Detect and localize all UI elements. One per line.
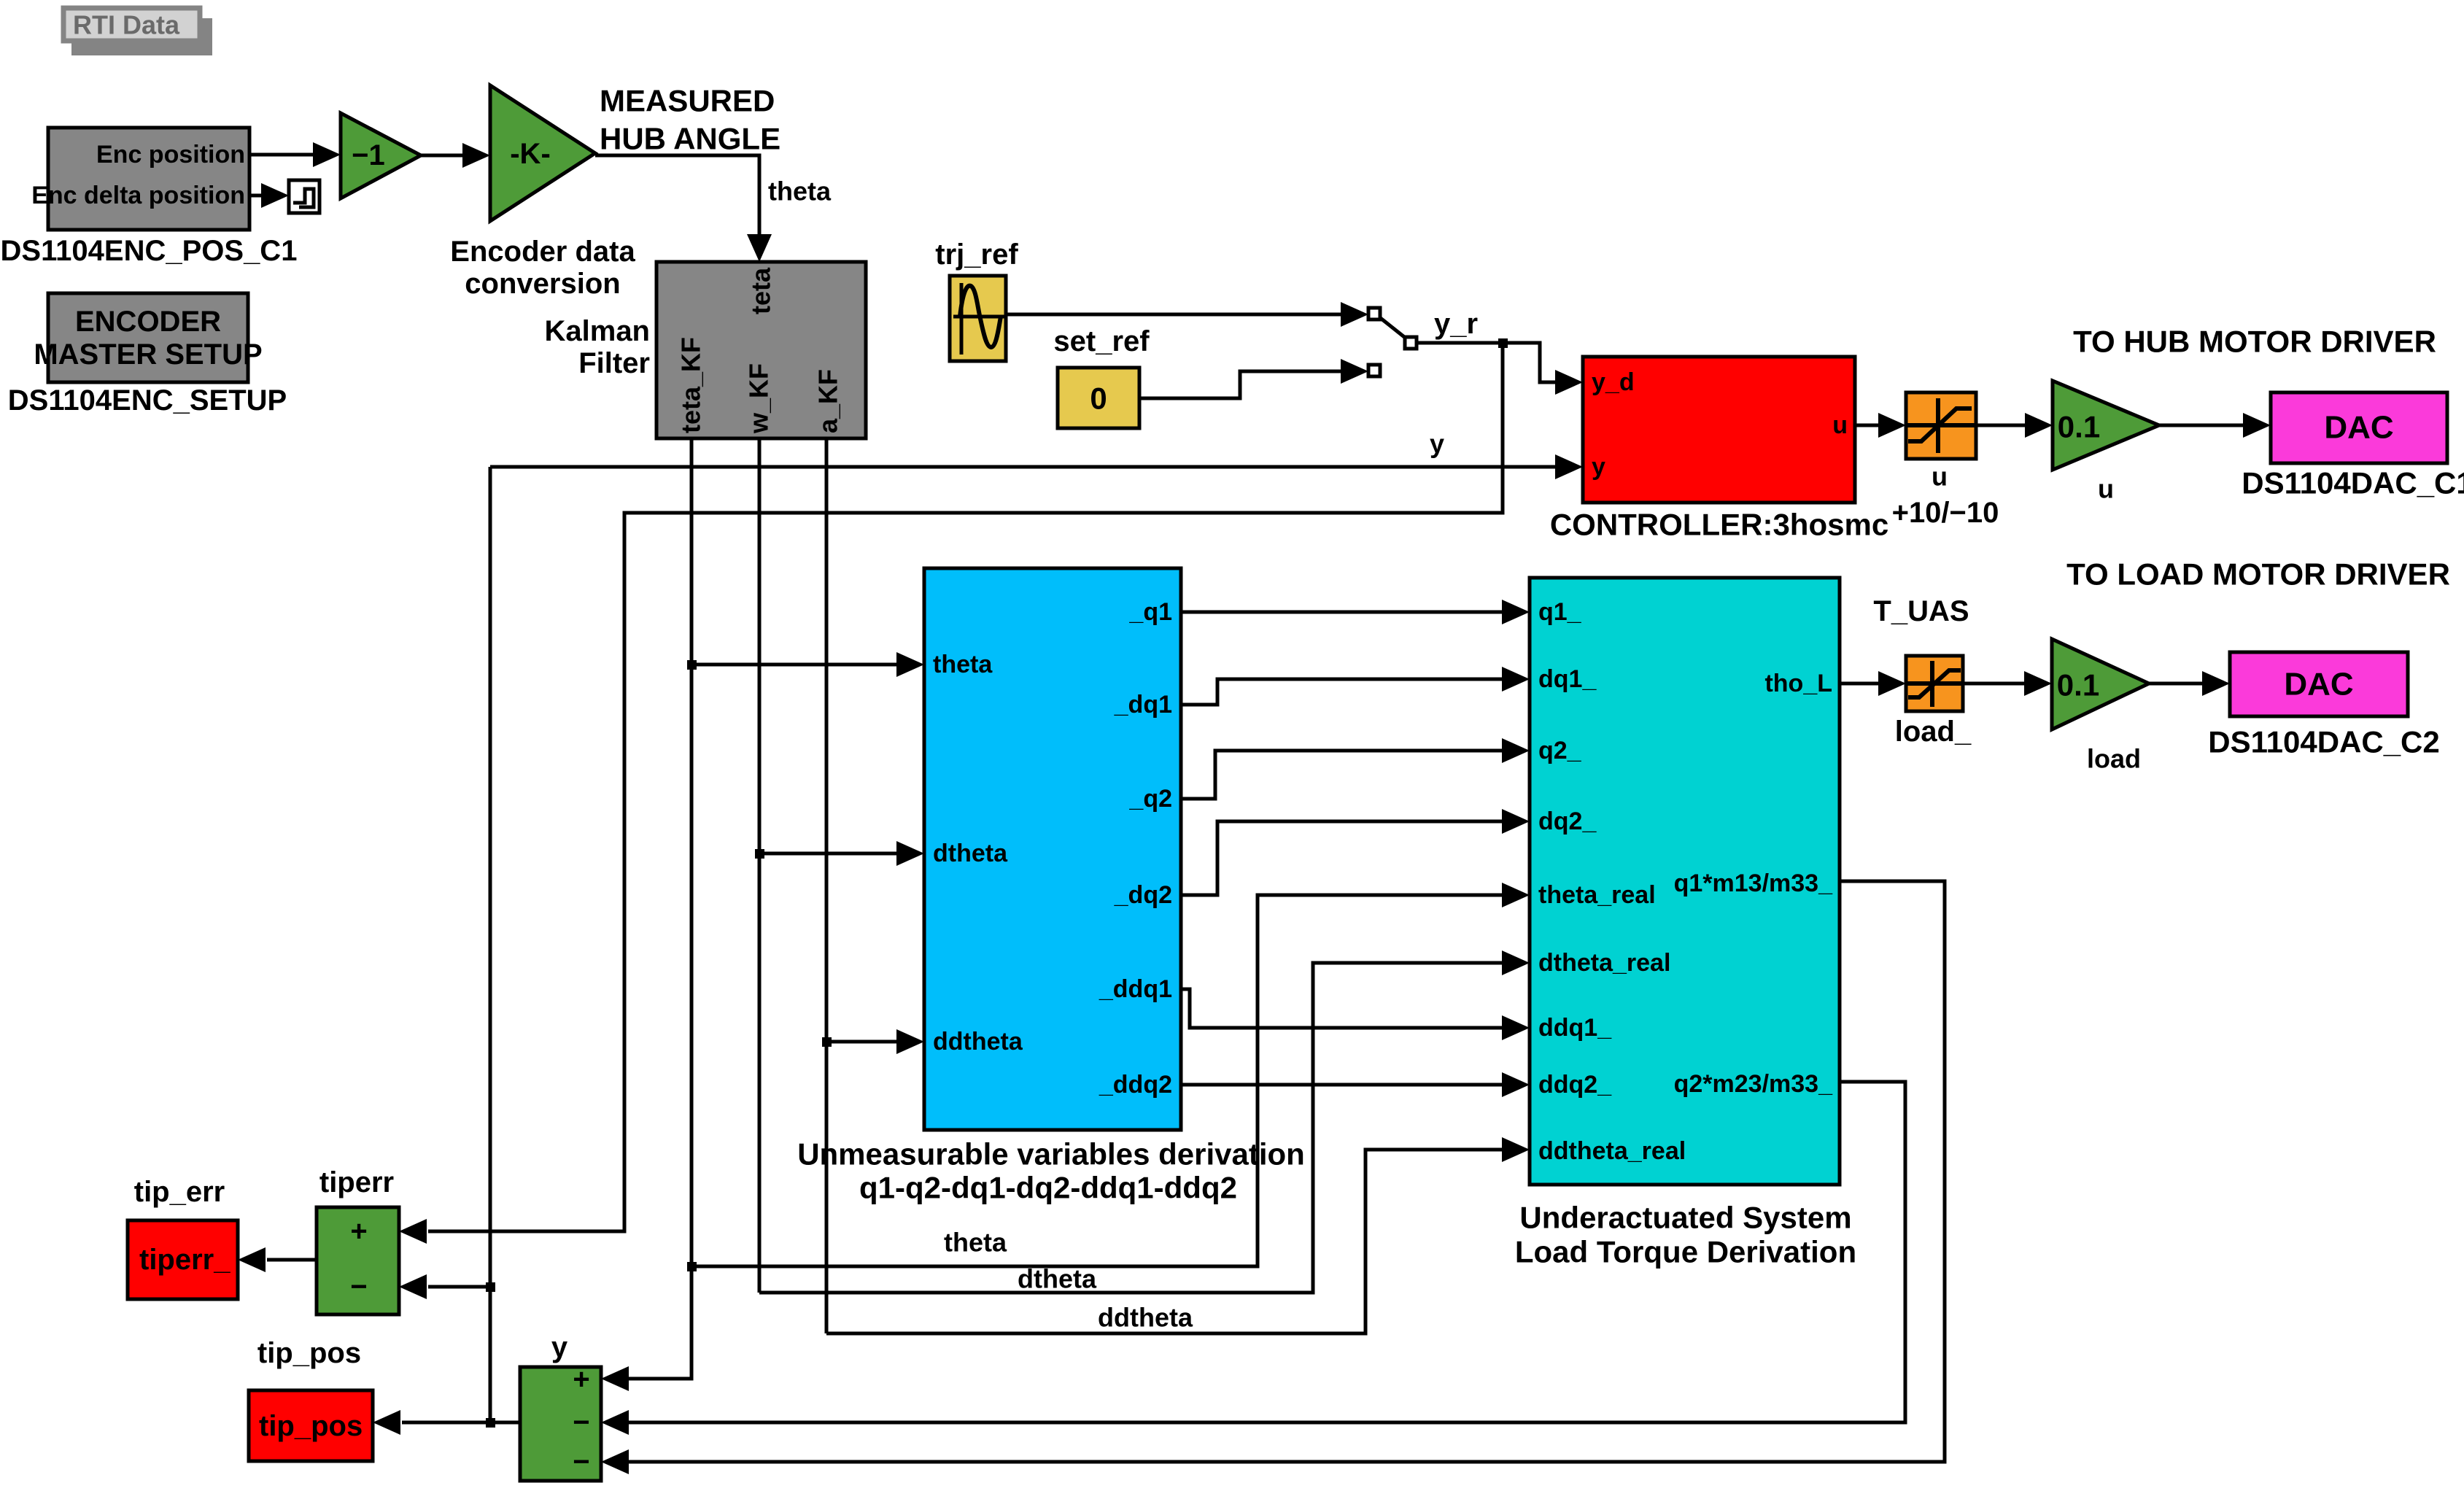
svg-text:DS1104DAC_C2: DS1104DAC_C2 [2208, 725, 2440, 759]
gain -1 [341, 113, 421, 198]
junction teta_KF to theta_real [687, 1262, 697, 1271]
gain 0.1 load [2052, 639, 2149, 774]
svg-text:_ddq1: _ddq1 [1099, 975, 1172, 1003]
svg-text:y: y [1430, 429, 1444, 459]
svg-text:y_d: y_d [1592, 368, 1635, 396]
block Underactuated System Load Torque Derivation [1515, 578, 1856, 1269]
svg-text:Load Torque Derivation: Load Torque Derivation [1515, 1235, 1856, 1269]
svg-text:TO LOAD MOTOR DRIVER: TO LOAD MOTOR DRIVER [2066, 557, 2450, 592]
block CONTROLLER:3hosmc [1550, 357, 1888, 542]
wire y_r switch to controller y_d [1417, 308, 1583, 395]
svg-text:DAC: DAC [2324, 410, 2393, 446]
svg-text:tiperr_: tiperr_ [139, 1244, 230, 1276]
svg-text:conversion: conversion [465, 268, 620, 300]
signal label MEASURED HUB ANGLE [600, 84, 780, 156]
wire q1*m13/m33_ feedback to y sum minus1 [601, 881, 1945, 1474]
wire gain -1 to gain -K- [421, 143, 490, 168]
svg-text:+: + [350, 1215, 367, 1247]
wire w_KF vertical [758, 438, 762, 1293]
block DS1104ENC_POS_C1 [1, 128, 298, 267]
svg-text:u: u [1832, 411, 1848, 439]
svg-text:DAC: DAC [2284, 667, 2353, 702]
block DAC DS1104DAC_C2 [2208, 652, 2440, 759]
svg-text:ddq2_: ddq2_ [1538, 1071, 1612, 1099]
wire _ddq2 to ddq2_ [1181, 1072, 1530, 1097]
wire trj_ref to switch [1006, 302, 1368, 327]
wire y vertical from sum [489, 467, 492, 1422]
junction teta_KF to blue theta [687, 660, 697, 670]
svg-text:y: y [1592, 453, 1605, 481]
svg-text:HUB ANGLE: HUB ANGLE [600, 122, 780, 156]
svg-text:_dq2: _dq2 [1114, 881, 1172, 909]
svg-text:tho_L: tho_L [1764, 670, 1832, 697]
svg-text:dq2_: dq2_ [1538, 808, 1597, 835]
svg-text:u: u [2098, 474, 2114, 504]
svg-text:theta: theta [768, 177, 832, 206]
outport tip_pos [249, 1337, 373, 1461]
svg-text:a_KF: a_KF [813, 369, 843, 433]
junction y at sum output [486, 1418, 495, 1428]
svg-text:DS1104ENC_POS_C1: DS1104ENC_POS_C1 [1, 235, 298, 267]
svg-text:dtheta_real: dtheta_real [1538, 949, 1670, 977]
gain 0.1 hub [2053, 381, 2159, 504]
svg-text:+: + [573, 1363, 589, 1395]
svg-text:ddtheta: ddtheta [933, 1028, 1023, 1056]
RTI Data badge [63, 8, 212, 55]
svg-text:_ddq2: _ddq2 [1099, 1071, 1172, 1099]
svg-text:load_: load_ [1895, 716, 1972, 748]
terminator T1 [289, 180, 319, 213]
saturation u +10/-10 [1892, 392, 1999, 529]
svg-text:0.1: 0.1 [2058, 410, 2100, 444]
svg-text:Encoder data: Encoder data [450, 236, 635, 268]
wire _dq2 to dq2_ [1181, 809, 1530, 895]
svg-text:y: y [551, 1331, 568, 1363]
sum tiperr [317, 1166, 399, 1314]
svg-text:Filter: Filter [578, 347, 650, 379]
junction y_r feedback [1498, 338, 1508, 348]
svg-text:dtheta: dtheta [1018, 1264, 1097, 1294]
svg-text:RTI Data: RTI Data [73, 10, 180, 40]
svg-text:teta_KF: teta_KF [676, 337, 706, 433]
svg-text:CONTROLLER:3hosmc: CONTROLLER:3hosmc [1550, 508, 1888, 542]
wire ddtheta to ddtheta_real with label [826, 1137, 1530, 1333]
wire a_KF vertical [825, 438, 829, 1333]
wire Enc position to gain -1 [249, 142, 341, 167]
svg-text:w_KF: w_KF [744, 363, 774, 434]
svg-text:y_r: y_r [1434, 308, 1478, 340]
svg-text:tip_err: tip_err [134, 1176, 225, 1208]
svg-text:ENCODER: ENCODER [75, 306, 221, 338]
svg-text:q2_: q2_ [1538, 737, 1582, 764]
svg-text:q1_: q1_ [1538, 598, 1582, 626]
wire teta_KF vertical [601, 438, 691, 1391]
wire tho_L to saturation load [1840, 671, 1906, 696]
wire theta to theta_real with label [691, 883, 1530, 1266]
wire _ddq1 to ddq1_ [1181, 989, 1530, 1040]
block DAC DS1104DAC_C1 [2242, 392, 2464, 500]
svg-text:tip_pos: tip_pos [259, 1410, 363, 1442]
wire y branch to tiperr minus [399, 1274, 490, 1299]
svg-text:_q1: _q1 [1128, 598, 1172, 626]
svg-text:−1: −1 [352, 139, 385, 171]
wire y_r feedback to tiperr plus [399, 343, 1503, 1244]
svg-text:_q2: _q2 [1128, 785, 1172, 813]
wire set_ref to switch [1139, 359, 1368, 398]
svg-text:ddq1_: ddq1_ [1538, 1014, 1612, 1042]
svg-text:TO HUB MOTOR DRIVER: TO HUB MOTOR DRIVER [2073, 325, 2436, 359]
wire w_KF branch to blue dtheta [759, 841, 924, 866]
svg-text:0.1: 0.1 [2057, 668, 2099, 702]
svg-text:set_ref: set_ref [1053, 325, 1150, 357]
svg-text:−: − [573, 1446, 589, 1478]
svg-text:theta_real: theta_real [1538, 881, 1656, 909]
block ENCODER MASTER SETUP [8, 293, 287, 417]
svg-text:Unmeasurable variables derivat: Unmeasurable variables derivation [797, 1137, 1305, 1171]
wire gain to DAC1 [2159, 413, 2271, 438]
block Kalman Filter [545, 262, 867, 438]
wire tiperr to tiperr_ [238, 1247, 317, 1272]
wire saturation to gain 0.1 hub [1976, 413, 2053, 438]
svg-text:Underactuated System: Underactuated System [1519, 1201, 1851, 1235]
wire u controller to saturation [1855, 413, 1906, 438]
svg-text:trj_ref: trj_ref [935, 239, 1018, 271]
svg-text:teta: teta [746, 267, 776, 314]
wire -K- to Kalman Filter with theta label [595, 155, 832, 262]
wire saturation to gain 0.1 load [1963, 671, 2052, 696]
sum y [520, 1331, 601, 1481]
svg-text:theta: theta [933, 651, 993, 678]
wire _dq1 to dq1_ [1181, 667, 1530, 705]
svg-text:_dq1: _dq1 [1114, 691, 1172, 719]
svg-text:-K-: -K- [510, 138, 551, 170]
block Unmeasurable variables derivation [797, 568, 1305, 1205]
source trj_ref [935, 239, 1018, 361]
svg-text:T_UAS: T_UAS [1873, 595, 1969, 627]
constant set_ref [1053, 325, 1150, 428]
svg-text:Kalman: Kalman [545, 315, 651, 347]
svg-text:u: u [1932, 462, 1948, 492]
wire a_KF branch to blue ddtheta [826, 1029, 924, 1054]
svg-text:ddtheta_real: ddtheta_real [1538, 1137, 1686, 1165]
wire _q1 to q1_ [1181, 600, 1530, 624]
junction a_KF to blue ddtheta [822, 1037, 832, 1047]
wire q2*m23/m33_ feedback to y sum minus2 [601, 1082, 1905, 1435]
manual switch [1368, 308, 1417, 376]
wire dtheta to dtheta_real with label [759, 950, 1530, 1294]
svg-text:q1-q2-dq1-dq2-ddq1-ddq2: q1-q2-dq1-dq2-ddq1-ddq2 [859, 1171, 1237, 1205]
svg-text:dq1_: dq1_ [1538, 665, 1597, 693]
junction w_KF to blue dtheta [755, 849, 764, 859]
outport tiperr_ [128, 1176, 238, 1299]
svg-text:MEASURED: MEASURED [600, 84, 775, 118]
saturation T_UAS load_ [1873, 595, 1972, 748]
svg-text:Enc position: Enc position [96, 141, 245, 169]
wire y into controller [490, 429, 1583, 480]
svg-text:MASTER SETUP: MASTER SETUP [34, 338, 262, 371]
svg-text:+10/−10: +10/−10 [1892, 497, 1999, 529]
wire Enc delta position to terminator [249, 183, 289, 208]
wire teta_KF branch to blue theta [691, 652, 924, 677]
wire y sum to tip_pos [373, 1410, 520, 1435]
wire gain to DAC2 [2149, 671, 2230, 696]
svg-text:0: 0 [1090, 382, 1107, 416]
svg-text:q2*m23/m33_: q2*m23/m33_ [1674, 1070, 1833, 1098]
svg-text:load: load [2087, 744, 2141, 774]
svg-text:tip_pos: tip_pos [257, 1337, 361, 1369]
svg-text:dtheta: dtheta [933, 840, 1008, 867]
svg-text:DS1104ENC_SETUP: DS1104ENC_SETUP [8, 384, 287, 417]
svg-text:DS1104DAC_C1: DS1104DAC_C1 [2242, 466, 2464, 500]
wire _q2 to q2_ [1181, 738, 1530, 799]
junction y to tiperr minus [486, 1282, 495, 1292]
svg-text:−: − [350, 1271, 367, 1303]
svg-text:ddtheta: ddtheta [1098, 1303, 1193, 1333]
svg-text:−: − [573, 1406, 589, 1438]
svg-text:Enc delta position: Enc delta position [31, 182, 245, 209]
svg-text:theta: theta [944, 1228, 1007, 1258]
svg-text:tiperr: tiperr [319, 1166, 394, 1198]
gain -K- Encoder data conversion [450, 85, 635, 300]
svg-text:q1*m13/m33_: q1*m13/m33_ [1674, 870, 1833, 897]
